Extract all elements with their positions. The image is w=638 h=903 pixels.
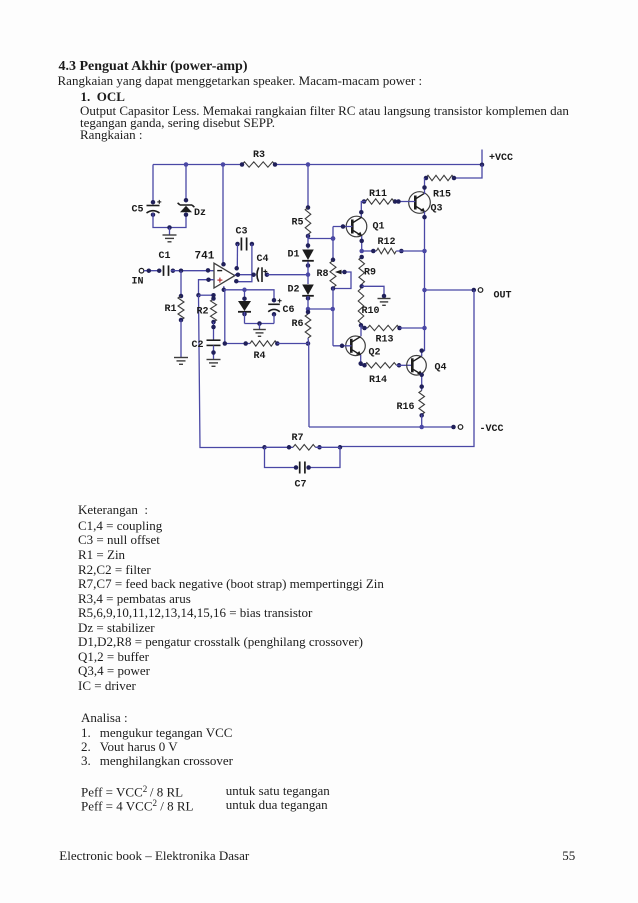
capacitor C2: [207, 340, 221, 345]
svg-text:C1: C1: [159, 251, 171, 262]
capacitor C7: [265, 447, 297, 467]
wire bracket to ground: [259, 324, 261, 330]
wire Q4 collector to rail: [422, 351, 425, 356]
wire OUT down to bootstrap loop: [340, 290, 474, 447]
svg-text:Q4: Q4: [435, 363, 447, 374]
wire R1 to ground: [180, 320, 182, 357]
wire C2 to ground: [213, 345, 215, 359]
svg-text:Q3: Q3: [431, 204, 443, 215]
wire R6 bottom down to -VCC rail: [308, 338, 309, 427]
transistor Q2: [346, 336, 366, 356]
transistor Q1: [346, 216, 367, 237]
svg-text:R3: R3: [253, 150, 265, 161]
transistor Q4: [407, 356, 427, 376]
capacitor C1: [164, 265, 169, 276]
wire C3 right to op-amp lower pin: [236, 244, 252, 282]
node R9-R10 junction with ground branch: [359, 284, 364, 289]
diode crossover (under op-amp): [244, 290, 246, 301]
wire feedback line down to bootstrap loop: [199, 295, 265, 447]
resistor R14: [365, 363, 397, 368]
wire op-amp non-inverting input / feedback node: [199, 280, 215, 296]
svg-text:R15: R15: [433, 190, 451, 201]
wire Q1 emitter to R9/R12 node: [361, 236, 363, 251]
op-amp U1 741: [214, 263, 235, 288]
wire -VCC rail: [309, 426, 454, 428]
zener diode Dz: [185, 165, 187, 202]
svg-text:R1: R1: [165, 304, 177, 315]
capacitor C5: [152, 165, 154, 203]
node OUT terminal: [425, 289, 475, 291]
wire Q3 collector: [424, 178, 426, 194]
transistor Q3: [409, 192, 431, 214]
resistor R16: [419, 391, 425, 415]
resistor R11: [366, 199, 395, 204]
diode D2: [302, 285, 314, 296]
resistor R1: [180, 271, 182, 296]
potentiometer R8: [330, 261, 336, 288]
wire Q3 emitter / output rail: [424, 212, 426, 352]
svg-text:R5: R5: [292, 218, 304, 229]
ground under C5/Dz: [167, 225, 172, 230]
svg-text:Dz: Dz: [194, 208, 206, 219]
svg-text:C4: C4: [257, 254, 269, 265]
resistor R5: [305, 208, 311, 235]
wire C5 bottom bracket: [153, 213, 186, 228]
svg-text:C2: C2: [192, 340, 204, 351]
svg-text:+VCC: +VCC: [489, 153, 513, 164]
wire D2 to R6 and crossover tap: [307, 296, 309, 314]
resistor R3: [242, 162, 275, 167]
wire Q1 collector to R11: [361, 202, 365, 218]
svg-text:OUT: OUT: [494, 291, 512, 302]
svg-text:C6: C6: [283, 305, 295, 316]
wire R14 to Q4 base: [397, 364, 413, 366]
node R6-R4 junction: [306, 341, 311, 346]
wire R13 to output rail: [400, 327, 425, 329]
svg-text:741: 741: [195, 251, 215, 263]
resistor R9: [359, 257, 365, 284]
bootstrap resistor R7: [262, 445, 267, 450]
wire top supply rail: [153, 164, 242, 166]
svg-text:Q1: Q1: [373, 222, 385, 233]
capacitor C4 (coupling): [257, 267, 262, 282]
wire to C6 and crossover diode: [224, 290, 274, 301]
wire C6 down to common bracket: [273, 314, 275, 323]
svg-text:R9: R9: [364, 268, 376, 279]
wire +VCC drop to R15: [454, 165, 482, 179]
wire C1 to op-amp inverting input: [171, 270, 214, 272]
node +VCC terminal: [481, 150, 483, 165]
capacitor C3 (null offset): [241, 238, 246, 251]
node -VCC terminal: [451, 425, 456, 430]
wire Q3 base: [399, 201, 416, 203]
wire to ground right of R10: [362, 286, 384, 296]
wire bracket diode-C6: [245, 323, 275, 325]
ground under C2: [207, 360, 221, 367]
diode D1: [302, 250, 314, 261]
svg-text:R12: R12: [378, 237, 396, 248]
svg-text:R13: R13: [376, 335, 394, 346]
wire R8 to Q2 base: [332, 288, 334, 346]
node IN terminal: [139, 268, 144, 273]
wire op-amp V+ from rail: [222, 165, 224, 265]
resistor R15: [426, 175, 454, 180]
wire op-amp output: [235, 274, 254, 276]
wire Q4 emitter to R16: [421, 375, 423, 391]
wire crosstalk tap to R8 bottom line: [308, 308, 333, 310]
wire R4 to R6 bottom: [277, 343, 308, 345]
resistor R6: [305, 314, 311, 338]
svg-text:R4: R4: [254, 351, 266, 362]
svg-text:C3: C3: [236, 227, 248, 238]
svg-text:C7: C7: [295, 480, 307, 491]
node C4-D1-D2 junction: [307, 262, 309, 285]
svg-text:IN: IN: [132, 277, 144, 288]
svg-text:R8: R8: [317, 269, 329, 280]
svg-text:D2: D2: [288, 285, 300, 296]
ground under R1: [174, 358, 188, 365]
svg-text:R10: R10: [362, 306, 380, 317]
resistor R12: [362, 250, 377, 252]
ground near R10: [378, 299, 391, 306]
svg-text:-VCC: -VCC: [480, 424, 504, 435]
resistor R4: [225, 343, 250, 345]
wire Q2 base: [333, 345, 352, 347]
svg-text:R16: R16: [397, 402, 415, 413]
wire Q2 emitter to R14: [361, 355, 365, 365]
wire R5 bottom to R8 line: [308, 238, 333, 240]
svg-text:C5: C5: [132, 205, 144, 216]
wire op-amp bottom branch to R4: [224, 290, 226, 344]
svg-text:R14: R14: [369, 375, 387, 386]
resistor R13: [368, 325, 400, 330]
wire R5 bottom to D1: [307, 235, 309, 249]
svg-text:R7: R7: [292, 433, 304, 444]
svg-text:R2: R2: [197, 307, 209, 318]
resistor R2: [211, 299, 217, 322]
wire R10 bottom to Q2 collector and R13: [360, 325, 362, 336]
wire C3 left to op-amp: [236, 244, 238, 268]
svg-text:D1: D1: [288, 250, 300, 261]
wire R12 to output rail: [396, 250, 424, 252]
wire C4 to D1-D2 node: [267, 274, 308, 276]
svg-text:Q2: Q2: [369, 348, 381, 359]
wire R16 to -VCC rail: [421, 415, 423, 428]
wire stub to R2: [199, 294, 214, 296]
wire Q1 base: [333, 226, 352, 228]
capacitor C6: [272, 298, 277, 303]
svg-text:R6: R6: [292, 319, 304, 330]
wire R2 to C2: [213, 322, 215, 340]
svg-text:R11: R11: [369, 189, 387, 200]
wire op-amp V- pin down: [223, 286, 225, 290]
resistor R10: [358, 289, 364, 324]
wire R8 branch from Q1 base: [332, 227, 334, 261]
wire R5 branch from rail: [307, 165, 309, 208]
ground under C6 bracket: [253, 330, 266, 337]
wiper of R8: [333, 272, 351, 289]
